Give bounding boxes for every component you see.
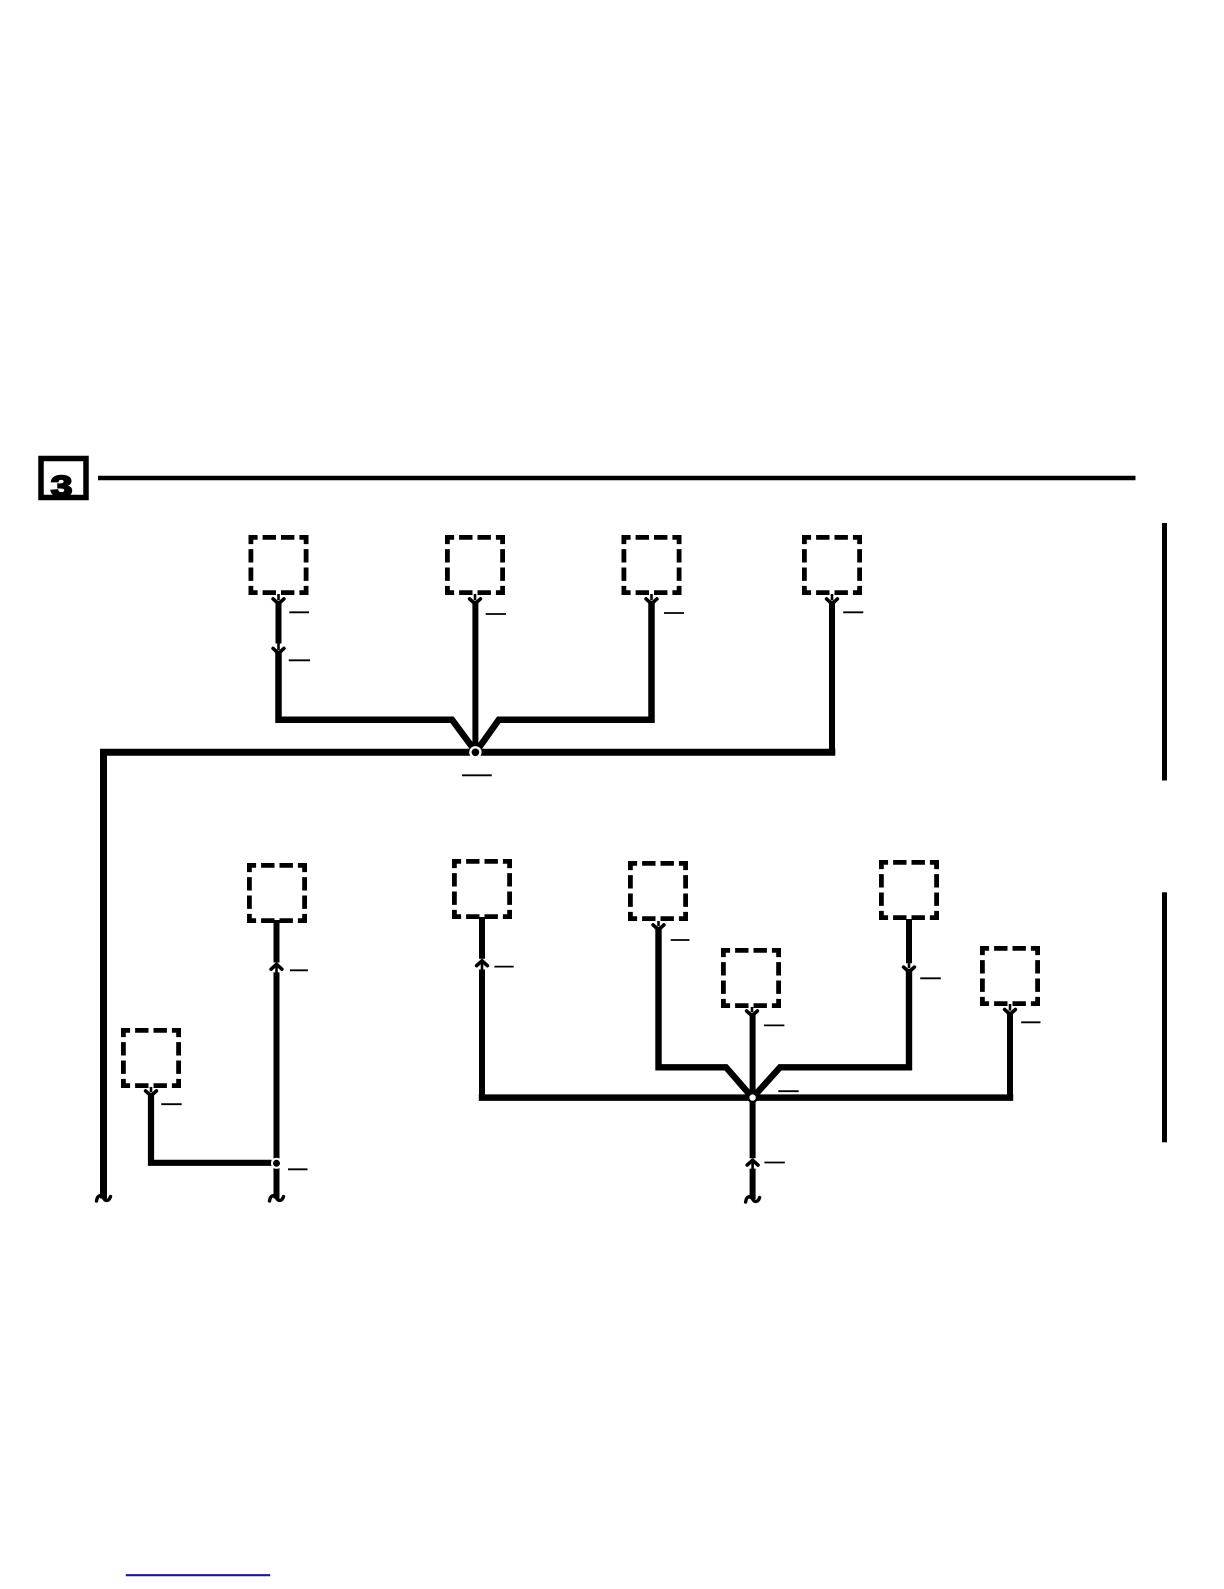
svg-text:3: 3 bbox=[51, 471, 73, 503]
